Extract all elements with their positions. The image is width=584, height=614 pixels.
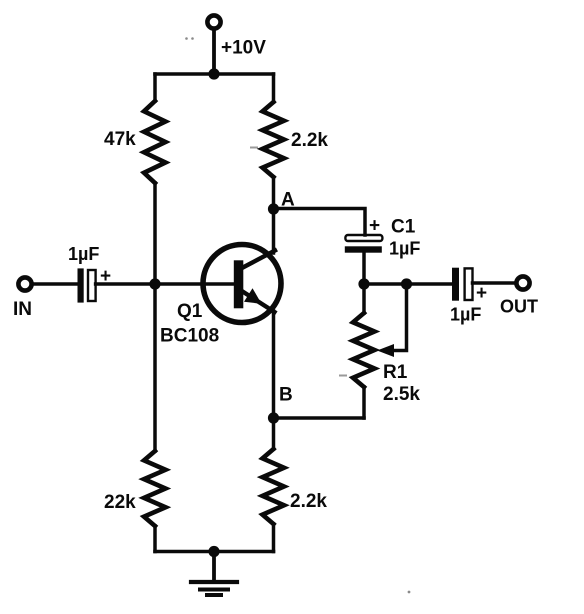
svg-text:C1: C1 xyxy=(391,217,416,238)
node B xyxy=(268,412,279,423)
svg-text:B: B xyxy=(279,385,293,406)
wire power stub xyxy=(212,29,216,74)
svg-text:Q1: Q1 xyxy=(177,301,203,322)
power terminal +10V xyxy=(207,15,220,28)
wire node B to lower resistor xyxy=(272,418,276,449)
capacitor C1 xyxy=(345,235,383,253)
svg-text:47k: 47k xyxy=(104,129,136,150)
capacitor 1uF output xyxy=(452,268,473,301)
resistor R 2.2k lower xyxy=(263,449,285,524)
wire C1 to output node xyxy=(362,253,366,285)
wire IN to capacitor xyxy=(32,282,78,286)
scan dot lower right xyxy=(408,591,411,594)
wire output cap to OUT xyxy=(473,281,515,285)
scan dash left of R1 xyxy=(339,375,347,377)
capacitor 1uF input xyxy=(78,268,96,302)
svg-text:1µF: 1µF xyxy=(450,305,481,325)
wire node B rail xyxy=(274,416,365,420)
terminal IN xyxy=(18,277,31,290)
svg-text:2.2k: 2.2k xyxy=(291,130,328,151)
svg-text:R1: R1 xyxy=(383,362,408,383)
svg-text:2.5k: 2.5k xyxy=(383,384,420,405)
svg-text:+10V: +10V xyxy=(221,38,266,59)
node A xyxy=(268,203,279,214)
junction dot output right xyxy=(401,278,412,289)
junction dot output left xyxy=(358,278,369,289)
junction dot base node xyxy=(149,278,160,289)
resistor R 47k xyxy=(144,101,166,183)
svg-text:1µF: 1µF xyxy=(389,239,420,259)
wiper arrow xyxy=(377,344,394,357)
scan dash left of upper 2.2k resistor xyxy=(250,147,258,149)
junction dot ground node xyxy=(208,546,219,557)
wire emitter to node B xyxy=(272,311,276,418)
wire node A to collector xyxy=(272,209,276,253)
svg-text:OUT: OUT xyxy=(500,297,538,317)
svg-text:1µF: 1µF xyxy=(68,244,99,264)
wire left branch lower xyxy=(153,526,157,552)
wire R1 bottom to node B rail xyxy=(362,387,366,418)
svg-text:2.2k: 2.2k xyxy=(290,491,327,512)
wire left branch middle xyxy=(153,183,157,451)
wire left branch upper xyxy=(153,74,157,101)
svg-text:IN: IN xyxy=(13,299,32,320)
wire lower right branch xyxy=(272,524,276,552)
wire bottom rail xyxy=(155,550,274,554)
svg-text:+: + xyxy=(369,216,380,237)
wire capacitor to base node xyxy=(96,282,155,286)
junction dot supply node xyxy=(208,68,219,79)
scan speck pair near power stub xyxy=(185,37,188,40)
potentiometer R1 2.5k xyxy=(353,313,375,387)
svg-text:22k: 22k xyxy=(104,492,136,513)
svg-text:BC108: BC108 xyxy=(160,326,219,347)
wire resistor to node A xyxy=(272,177,276,209)
resistor R 2.2k upper xyxy=(263,102,285,177)
wire base xyxy=(155,282,234,286)
resistor R 22k xyxy=(144,451,166,526)
terminal OUT xyxy=(516,276,529,289)
transistor Q1 xyxy=(203,245,281,323)
wire node A to C1 xyxy=(274,209,366,236)
wire top rail xyxy=(155,72,274,76)
svg-text:+: + xyxy=(476,283,487,304)
wire right branch upper xyxy=(272,74,276,102)
ground xyxy=(191,552,237,596)
wire output node to R1 xyxy=(362,284,366,313)
wire R1 wiper xyxy=(390,284,407,351)
wire output rail xyxy=(364,282,452,286)
